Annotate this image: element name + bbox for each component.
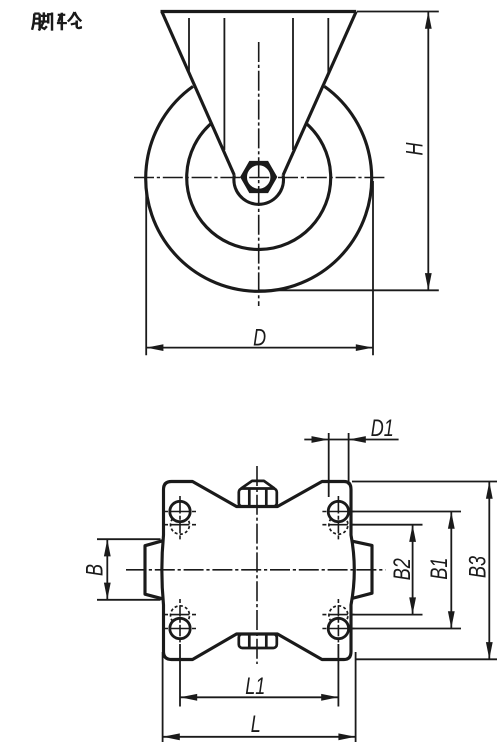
svg-text:D1: D1	[371, 415, 394, 441]
svg-text:H: H	[402, 142, 428, 156]
svg-text:D: D	[253, 325, 266, 351]
svg-text:B1: B1	[427, 558, 453, 580]
svg-text:L: L	[251, 712, 261, 738]
svg-text:B2: B2	[390, 558, 416, 580]
svg-text:B: B	[82, 564, 108, 576]
svg-text:L1: L1	[245, 674, 265, 700]
svg-text:B3: B3	[465, 556, 491, 578]
